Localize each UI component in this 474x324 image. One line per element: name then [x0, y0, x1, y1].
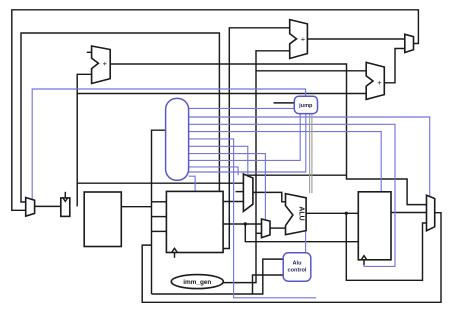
wire imm branch to adder A3 upper input	[256, 70, 366, 72]
mux M4 top-right next-PC mux	[405, 34, 414, 52]
blue wire AluControl output to ALU select	[305, 231, 307, 253]
wire instruction bottom line y=294	[152, 259, 284, 294]
wire PC line y=183.2 to mux A input1	[77, 182, 243, 184]
wire mux A output to ALU input A	[253, 192, 286, 201]
wire x=229.3 long vertical adder A2 top input	[223, 28, 290, 249]
wire mux C output down around bottom to x=142	[142, 213, 441, 303]
blue wire F6 control to mux A select b	[189, 146, 248, 177]
wire regfile pin stub rs2	[152, 216, 167, 218]
wire adder A2 output to mux D	[307, 38, 404, 40]
wire jump left black stub	[274, 102, 295, 104]
blue wire F8 control to mux A select a	[189, 167, 239, 175]
wire adder A1 constant stub	[87, 51, 92, 53]
imm_gen	[171, 275, 223, 289]
svg-text:Alu: Alu	[292, 261, 302, 267]
adder A3 jump adder	[366, 62, 384, 99]
wire adder A1 output to x=346.5 riser	[110, 64, 426, 205]
wire PC+4 branch to mux A top corner	[243, 174, 346, 176]
wire PC out to instruction memory	[35, 205, 61, 207]
wire data memory read out to mux C input2	[391, 212, 427, 214]
blue wire F1 control to jump	[189, 107, 295, 109]
svg-text:+: +	[103, 59, 108, 68]
wire mux B output to ALU input B	[270, 227, 286, 229]
wire outer next-PC loop: muxD out up over top left down to mux M1	[12, 10, 419, 211]
control unit	[166, 98, 189, 180]
adder A2 branch adder	[290, 20, 308, 59]
blue wire F3 control to data mem clock curl	[189, 124, 395, 266]
ALU	[286, 194, 307, 235]
adder A1 PC+4	[92, 46, 111, 84]
wire regfile pin stub rs1	[152, 201, 167, 203]
data memory	[358, 192, 391, 265]
wire PC net vertical x=77	[77, 74, 91, 206]
grey wire jump g2	[311, 114, 313, 194]
wire AluControl input2 riser	[253, 275, 284, 294]
blue wire F2 control to mux C select	[189, 117, 430, 197]
wire regfile pin stub rd	[152, 230, 167, 232]
svg-text:jump: jump	[298, 103, 313, 109]
blue wire F9 RegWrite to register file	[189, 176, 196, 192]
wire rs2 branch down to data memory write data	[245, 224, 358, 242]
blue wire J2 jump output2 to control	[189, 114, 306, 172]
register file	[166, 191, 223, 257]
wire instr mem out to instruction bus	[121, 206, 151, 208]
junction ALU result	[345, 212, 348, 215]
ALU control	[283, 253, 311, 281]
wire ALU result bypass to mux C input3	[346, 213, 426, 280]
wire inner loop y=33 from x=21 to x=219.4	[21, 33, 243, 202]
junction rs2	[244, 222, 247, 225]
mux M1 PC source mux	[26, 198, 35, 217]
wire PC long line y=93.5 to adder A3 lower input	[77, 93, 366, 95]
svg-text:ALU: ALU	[298, 206, 305, 220]
mux B operand-B mux	[262, 219, 271, 238]
wire adder A3 output to mux D lower input	[384, 49, 405, 83]
grey wire jump g1	[309, 114, 311, 194]
blue wire F7 control to mux B select	[189, 154, 266, 220]
svg-text:+: +	[301, 34, 306, 43]
jump unit	[294, 96, 317, 113]
svg-text:control: control	[288, 268, 307, 274]
wire imm riser x=256 from imm_gen up to adder A2 lower input	[223, 51, 290, 283]
blue wire F5 control down x=233.6 to bottom	[189, 139, 317, 298]
wire read-data2 to mux B input1 with junction	[223, 223, 261, 225]
mux C write-back mux	[427, 195, 435, 231]
wire ALU output to data memory address	[306, 212, 358, 214]
blue wire F4 control to data memory top	[189, 132, 382, 192]
mux A operand-A mux	[243, 174, 253, 211]
svg-text:+: +	[377, 78, 382, 87]
instruction memory	[84, 192, 121, 247]
svg-text:imm_gen: imm_gen	[183, 279, 211, 286]
PC register	[61, 192, 70, 217]
blue wire jump top / PC-src select y=89	[32, 89, 305, 199]
wire mux A input stub	[236, 191, 244, 193]
wire imm branch to mux B input2	[256, 232, 262, 234]
wire instruction bus vertical x=151.5	[152, 130, 166, 294]
blue wire J1 jump output to control	[189, 114, 301, 161]
